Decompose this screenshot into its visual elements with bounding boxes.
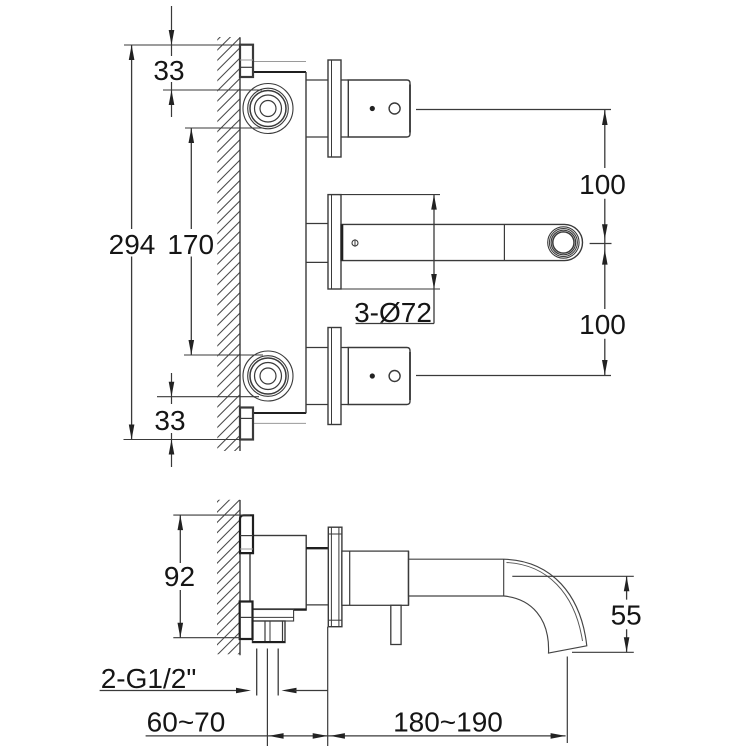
svg-text:92: 92 (164, 561, 195, 592)
svg-text:60~70: 60~70 (147, 707, 226, 738)
svg-text:33: 33 (154, 405, 185, 436)
svg-text:100: 100 (579, 309, 626, 340)
svg-text:294: 294 (109, 229, 156, 260)
svg-text:170: 170 (167, 229, 214, 260)
svg-text:3-Ø72: 3-Ø72 (354, 297, 432, 328)
svg-text:55: 55 (611, 600, 642, 631)
svg-text:180~190: 180~190 (393, 707, 503, 738)
svg-text:33: 33 (153, 55, 184, 86)
svg-text:2-G1/2": 2-G1/2" (101, 663, 197, 694)
svg-text:100: 100 (579, 169, 626, 200)
